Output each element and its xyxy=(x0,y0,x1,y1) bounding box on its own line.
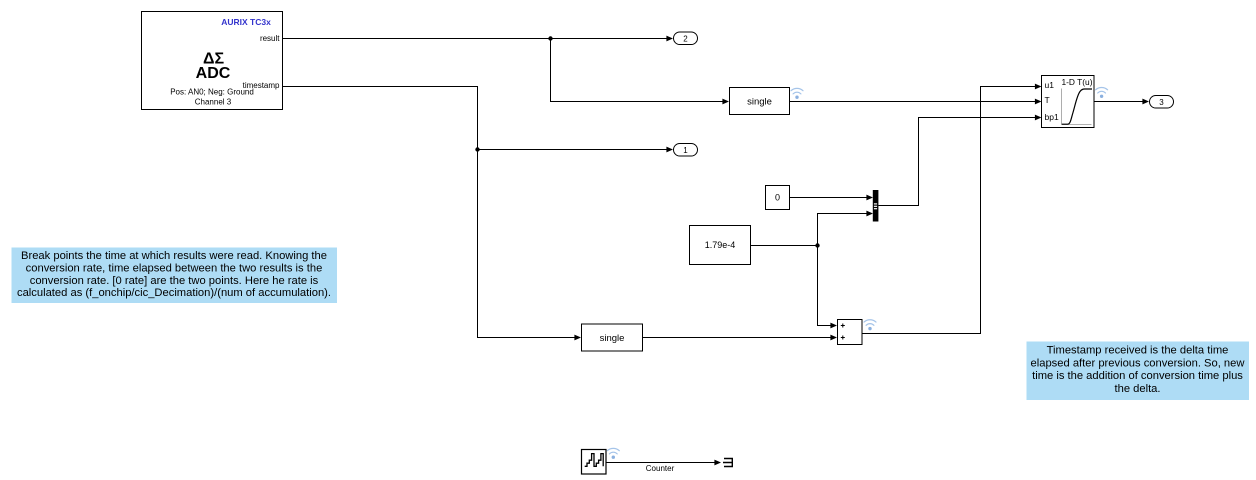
block Constant 0 xyxy=(766,186,790,210)
svg-text:calculated as (f_onchip/cic_De: calculated as (f_onchip/cic_Decimation)/… xyxy=(17,287,331,299)
wire result branch down to Data Type Conversion single (top) xyxy=(551,39,723,102)
wire single (bottom) to Add input 2 xyxy=(643,337,831,339)
svg-text:ADC: ADC xyxy=(196,65,231,82)
svg-text:1.79e-4: 1.79e-4 xyxy=(705,240,736,250)
arrowhead into bp1 xyxy=(1035,115,1042,121)
wire branch to outport 1 xyxy=(478,149,667,151)
svg-text:1: 1 xyxy=(683,146,688,155)
outport 3 xyxy=(1150,96,1174,109)
annotation note right xyxy=(1027,342,1250,401)
arrowhead into single (top) xyxy=(722,99,729,105)
outport 2 xyxy=(674,32,698,45)
block Add (sum) xyxy=(838,320,863,345)
wire branch down to Add input 1 xyxy=(818,246,831,326)
block Counter (stair generator) xyxy=(582,450,607,475)
junction on result wire xyxy=(548,36,552,40)
logging badge on single (top) xyxy=(791,88,803,99)
arrowhead into Mux input 1 xyxy=(866,195,873,201)
svg-text:Pos: AN0; Neg: Ground: Pos: AN0; Neg: Ground xyxy=(170,88,254,97)
svg-text:elapsed after previous convers: elapsed after previous conversion. So, n… xyxy=(1031,357,1246,369)
arrowhead into outport 2 xyxy=(666,36,673,42)
arrowhead into Mux input 2 xyxy=(866,211,873,217)
block single (top) Data Type Conversion xyxy=(730,88,790,115)
svg-text:the delta.: the delta. xyxy=(1114,383,1160,395)
outport 1 xyxy=(674,144,698,157)
svg-text:Break points the time at which: Break points the time at which results w… xyxy=(21,250,327,262)
wire branch up to Mux input 2 xyxy=(818,214,867,246)
svg-text:u1: u1 xyxy=(1045,80,1055,90)
arrowhead into outport 3 xyxy=(1142,99,1149,105)
block single (bottom) Data Type Conversion xyxy=(582,324,643,351)
wire Constant 0 to Mux input 1 xyxy=(790,197,867,199)
block Mux / Vector Concatenate xyxy=(873,190,879,222)
junction on 1.79e-4 wire xyxy=(815,243,819,247)
svg-text:0: 0 xyxy=(775,193,780,203)
svg-text:Counter: Counter xyxy=(646,464,675,473)
svg-text:single: single xyxy=(600,333,625,344)
svg-text:T: T xyxy=(1045,95,1050,105)
svg-text:single: single xyxy=(747,97,772,108)
svg-text:bp1: bp1 xyxy=(1045,112,1059,122)
svg-text:AURIX TC3x: AURIX TC3x xyxy=(221,17,271,27)
wire result to outport 2 xyxy=(282,38,667,40)
svg-text:Timestamp received is the delt: Timestamp received is the delta time xyxy=(1047,345,1229,357)
block Constant 1.79e-4 xyxy=(690,226,751,265)
wire Lookup Table to outport 3 xyxy=(1094,101,1143,103)
logging badge on Lookup Table xyxy=(1096,87,1108,98)
arrowhead into terminator xyxy=(714,460,721,466)
wire single (top) to T input xyxy=(790,101,1036,103)
wire Mux output to bp1 xyxy=(878,118,1035,206)
svg-text:result: result xyxy=(260,34,280,43)
logging badge on Add xyxy=(864,320,876,331)
arrowhead into u1 xyxy=(1035,84,1042,90)
arrowhead into Add input 2 xyxy=(830,335,837,341)
block U1 ADC AURIX TC3x xyxy=(142,12,283,110)
wire timestamp down and to single (bottom) xyxy=(282,87,575,338)
arrowhead into single (bottom) xyxy=(574,335,581,341)
junction on timestamp wire xyxy=(475,147,479,151)
arrowhead into T xyxy=(1035,99,1042,105)
svg-text:2: 2 xyxy=(683,34,688,43)
block Lookup Table 1-D T(u) xyxy=(1042,76,1095,128)
svg-text:conversion rate. [0 rate] are: conversion rate. [0 rate] are the two po… xyxy=(30,275,319,287)
svg-text:3: 3 xyxy=(1159,98,1164,107)
wire Counter to terminator xyxy=(606,462,715,464)
svg-text:conversion rate, time elapsed: conversion rate, time elapsed between th… xyxy=(26,262,323,274)
svg-text:Channel 3: Channel 3 xyxy=(195,98,232,107)
svg-text:time is the addition of conver: time is the addition of conversion time … xyxy=(1032,370,1243,382)
svg-text:timestamp: timestamp xyxy=(243,81,280,90)
wire Constant 1.79e-4 to junction xyxy=(751,245,818,247)
logging badge on Counter xyxy=(607,448,619,459)
svg-text:1-D T(u): 1-D T(u) xyxy=(1061,77,1092,87)
terminator xyxy=(723,459,732,467)
arrowhead into outport 1 xyxy=(666,147,673,153)
arrowhead into Add input 1 xyxy=(830,323,837,329)
annotation note left xyxy=(12,248,338,304)
wire Add output to u1 xyxy=(862,87,1035,334)
